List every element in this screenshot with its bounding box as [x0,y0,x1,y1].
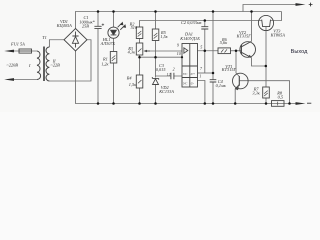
wire R5 VD2 column [155,12,157,104]
junction dot VT2 base node [235,50,238,53]
svg-text:КТ805А: КТ805А [270,33,286,38]
minus output arrow [296,102,306,105]
wire second top line [140,21,263,28]
resistor R4 [136,75,143,88]
wire VT2 collector [251,12,253,42]
svg-text:~220В: ~220В [7,62,19,67]
svg-text:25В: 25В [82,23,89,28]
capacitor C3 plates [171,73,174,80]
capacitor C1 plates [94,26,101,28]
wire VT3 base column [265,27,267,88]
svg-text:АЛ307Б: АЛ307Б [100,41,116,46]
transistor VT1 [233,73,249,89]
junction dots top rail [97,10,100,13]
resistor R1 [110,52,117,64]
wire bottom negative rail [76,51,297,104]
svg-text:10: 10 [177,52,181,56]
svg-text:510: 510 [131,25,138,30]
wire VT2 emitter to VT3 base [252,58,266,66]
junction dot VT3 base [265,65,268,68]
svg-text:R4: R4 [126,75,133,80]
op-amp DA1 triangle [184,48,188,53]
transistor VT2 [240,42,256,58]
transistor VT3 [258,15,273,30]
svg-text:КЦ405А: КЦ405А [56,23,72,28]
LED HL1 emission arrows [118,23,125,30]
svg-text:U-: U- [191,81,194,85]
wire rail jog to second line [270,12,281,21]
wire top positive rail [76,12,282,29]
capacitor C2 plates [201,27,208,29]
wire C3 leads [156,75,183,77]
wire R3 wiper to pin 9 [147,50,183,52]
resistor R7 [263,87,270,98]
wire secondary return [49,40,91,81]
svg-text:КС133А: КС133А [158,89,174,94]
bridge internal diode [72,32,78,48]
wire VT1 base sense line [239,81,289,104]
capacitor C4 plates [210,80,217,82]
wire C2 column [204,21,206,51]
svg-text:Выход: Выход [291,49,308,55]
svg-text:5: 5 [200,45,202,49]
wire x205 column [204,51,206,73]
plus sign [309,3,313,7]
junction dot pin7 C4 [212,72,215,75]
fuse FU1 [19,49,32,53]
mains arrow lower [4,78,14,81]
wire R6 to VT2 base [231,50,242,52]
wire R7 bottom [265,98,267,104]
resistor R5 [152,29,159,41]
wire pin 7 line [198,72,214,74]
resistor R6 [218,48,231,54]
capacitor C1 plus mark [102,24,104,26]
wire mains lower lead [12,79,37,81]
junction dot pin5 node [204,50,207,53]
junction dot C2 top [204,19,207,22]
svg-text:9: 9 [177,44,179,48]
junction dots pin10 line [138,56,141,59]
svg-text:12: 12 [167,73,171,77]
wire C1 column [97,12,99,104]
wire C4 column [212,12,214,104]
svg-text:~22В: ~22В [51,62,61,67]
minus sign [307,102,311,104]
resistor R2 [136,27,143,39]
svg-text:T1: T1 [42,35,47,40]
junction dots bottom rail [97,102,100,105]
potentiometer R3 wiper arrow [146,50,150,52]
zener diode VD2 [152,77,158,80]
wire pin 10 line [140,56,183,58]
mains arrow upper [4,50,14,53]
wire plus output [243,5,297,12]
wire mains upper lead [12,50,37,52]
svg-text:К140УД1Б: К140УД1Б [179,36,200,41]
transformer T1 secondary winding [46,47,49,81]
wire pin 1 line [198,81,205,104]
transformer T1 primary winding [37,51,41,80]
svg-text:КТ315Г: КТ315Г [221,67,237,72]
wire HL1 R1 column [113,12,115,104]
wire pin 5 output line [198,50,219,52]
bridge rectifier VD1 diamond [64,29,87,52]
svg-text:FU1 5A: FU1 5A [10,42,25,47]
plus output arrow [296,3,306,6]
wire VT1 emitter to rail [234,89,236,104]
wire R2 R3 R4 column [139,39,141,104]
op-amp DA1 box [182,44,198,88]
svg-text:КТ315Г: КТ315Г [236,34,252,39]
svg-text:U+: U+ [191,72,196,76]
svg-text:1: 1 [199,74,201,78]
potentiometer R3 [136,43,143,55]
wire secondary top lead [49,40,64,47]
LED HL1 [108,27,119,38]
resistor R8 [272,101,285,107]
svg-text:2: 2 [173,67,175,71]
wire VT1 collector to node [236,51,239,77]
transformer T1 core [43,47,45,82]
